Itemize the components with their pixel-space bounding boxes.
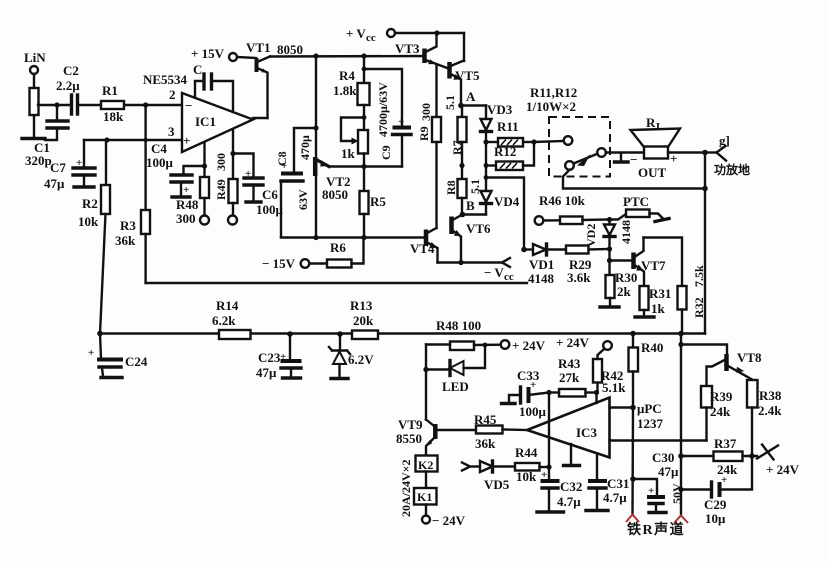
wire feedback rail y283 <box>146 282 527 284</box>
svg-text:R32: R32 <box>692 297 706 318</box>
svg-text:VD2: VD2 <box>584 224 598 247</box>
resistor R11 (wirewound) <box>483 139 488 144</box>
svg-text:36k: 36k <box>115 233 136 248</box>
svg-text:R11: R11 <box>497 119 519 134</box>
capacitor C33 100u <box>519 387 522 403</box>
svg-text:R3: R3 <box>120 218 136 233</box>
LED <box>425 345 427 420</box>
resistor R49 300 <box>232 129 234 179</box>
svg-text:R40: R40 <box>641 340 663 355</box>
svg-text:NE5534: NE5534 <box>143 72 188 87</box>
svg-text:−: − <box>185 98 192 113</box>
svg-text:R45: R45 <box>474 412 497 427</box>
svg-text:6.2k: 6.2k <box>212 313 236 328</box>
svg-text:C: C <box>193 62 202 77</box>
svg-text:铁R声道: 铁R声道 <box>627 521 685 538</box>
svg-text:cc: cc <box>366 32 376 44</box>
speaker minus tick <box>620 153 622 161</box>
capacitor C4 <box>184 166 205 174</box>
svg-text:IC3: IC3 <box>576 425 597 440</box>
svg-text:R2: R2 <box>82 196 98 211</box>
wire VT1 collector row y56 <box>270 55 424 58</box>
capacitor C9 4700u/63V <box>364 69 402 126</box>
node +24V cross <box>757 445 778 460</box>
svg-text:VD5: VD5 <box>484 477 510 492</box>
svg-text:VD3: VD3 <box>487 102 513 117</box>
svg-text:+ 24V: + 24V <box>512 338 546 353</box>
svg-text:R37: R37 <box>714 436 737 451</box>
relay K1 <box>414 488 437 505</box>
transistor VT3 <box>422 49 427 64</box>
capacitor C2 <box>70 95 73 114</box>
wire x681 column <box>680 334 682 516</box>
svg-text:R46 10k: R46 10k <box>539 193 586 208</box>
svg-text:4700μ/63V: 4700μ/63V <box>376 82 390 137</box>
capacitor C32 4.7u <box>546 464 551 469</box>
zener diode 6.2V <box>339 334 341 350</box>
capacitor C24 <box>100 334 101 359</box>
svg-text:VT4: VT4 <box>410 241 435 256</box>
svg-text:K1: K1 <box>417 490 432 504</box>
svg-text:8550: 8550 <box>396 431 422 446</box>
svg-text:R31: R31 <box>649 286 671 301</box>
resistor R3 <box>144 105 146 210</box>
resistor R38 2.4k <box>747 380 758 408</box>
svg-text:IC1: IC1 <box>195 114 216 129</box>
svg-text:+: + <box>648 485 654 497</box>
svg-text:cc: cc <box>504 271 514 283</box>
resistor R39 24k <box>701 386 712 408</box>
svg-text:5.1: 5.1 <box>468 179 482 194</box>
svg-text:20k: 20k <box>353 313 374 328</box>
node A <box>458 103 464 109</box>
wire VD3-VD4 column x486 <box>485 142 487 190</box>
svg-text:27k: 27k <box>559 370 580 385</box>
svg-text:4148: 4148 <box>528 271 555 286</box>
svg-text:A: A <box>466 89 476 104</box>
resistor R9 300 <box>435 66 437 118</box>
resistor R6 and -15V terminal <box>301 259 310 268</box>
wire branch y177 to x524 <box>486 178 524 250</box>
resistor R1 <box>101 101 124 109</box>
wire VT7 base row <box>608 249 610 261</box>
resistor R45 36k <box>438 429 477 431</box>
wire y188 from switch contact 3 <box>563 170 705 189</box>
resistor R5 <box>363 167 365 192</box>
svg-text:R4: R4 <box>339 68 355 83</box>
svg-text:+: + <box>76 157 82 169</box>
capacitor C23 47u <box>289 334 291 360</box>
svg-text:2.2μ: 2.2μ <box>56 78 80 93</box>
diode VD1 4148 <box>524 248 533 250</box>
svg-text:VT9: VT9 <box>398 417 423 432</box>
svg-text:VD4: VD4 <box>494 194 520 209</box>
svg-text:1237: 1237 <box>637 416 664 431</box>
svg-text:VT7: VT7 <box>641 258 666 273</box>
svg-text:−: − <box>630 152 637 167</box>
node +24V terminal (left) <box>501 340 510 349</box>
svg-text:5.1: 5.1 <box>443 95 457 110</box>
wire <box>425 472 427 489</box>
wire C33/R43 column <box>546 390 551 395</box>
svg-text:24k: 24k <box>710 404 731 419</box>
svg-text:C29: C29 <box>704 497 727 512</box>
svg-text:+: + <box>183 133 190 148</box>
svg-text:R: R <box>646 115 656 130</box>
svg-text:R12: R12 <box>494 144 516 159</box>
wire <box>38 104 71 106</box>
node output sense junction <box>521 247 527 253</box>
svg-text:300: 300 <box>419 103 433 121</box>
svg-text:VD1: VD1 <box>529 257 554 272</box>
svg-text:K2: K2 <box>418 458 433 472</box>
transistor VT9 8550 <box>426 420 434 426</box>
svg-text:47μ: 47μ <box>658 464 679 479</box>
svg-text:功放地: 功放地 <box>714 162 750 177</box>
svg-text:R43: R43 <box>558 356 581 371</box>
svg-text:R49: R49 <box>214 179 228 200</box>
ground <box>22 137 45 140</box>
capacitor C30 47u 50V <box>630 476 636 482</box>
red channel marks <box>626 515 639 523</box>
resistor R8 5.1 <box>458 179 467 198</box>
svg-text:4.7μ: 4.7μ <box>603 490 627 505</box>
svg-text:+ 24V: + 24V <box>766 462 800 477</box>
svg-text:20A/24V×2: 20A/24V×2 <box>399 459 413 517</box>
wire VT2 base column x316 <box>315 56 317 158</box>
svg-text:1k: 1k <box>341 146 356 161</box>
node -24V terminal <box>425 505 427 516</box>
svg-text:C24: C24 <box>125 354 148 369</box>
svg-text:C33: C33 <box>517 368 540 383</box>
capacitor C8 470u 63V <box>294 128 316 172</box>
op-amp IC1 <box>182 93 253 152</box>
svg-text:C4: C4 <box>151 141 167 156</box>
svg-text:100μ: 100μ <box>519 404 547 419</box>
op-amp IC3 <box>527 398 610 458</box>
node +24V terminal (right) <box>603 341 612 350</box>
svg-text:R11,R12: R11,R12 <box>530 85 577 100</box>
transistor VT5 <box>447 62 452 79</box>
svg-text:+ 15V: + 15V <box>191 46 225 61</box>
transistor VT7 <box>631 253 636 270</box>
svg-text:μPC: μPC <box>637 401 662 416</box>
svg-text:VT6: VT6 <box>466 221 491 236</box>
svg-text:+: + <box>245 168 251 180</box>
svg-text:LED: LED <box>442 379 469 394</box>
svg-text:7.5k: 7.5k <box>692 265 706 287</box>
svg-text:+: + <box>88 347 94 359</box>
node LiN input terminal <box>30 66 38 74</box>
svg-text:10μ: 10μ <box>705 511 726 526</box>
capacitor C29 10u <box>678 487 683 492</box>
svg-text:C30: C30 <box>652 450 674 465</box>
transistor VT1 <box>237 57 256 58</box>
switch contact circle 1 <box>534 141 564 142</box>
svg-text:R30: R30 <box>615 270 637 285</box>
svg-text:LiN: LiN <box>24 50 46 65</box>
svg-text:4148: 4148 <box>619 220 633 244</box>
svg-text:R14: R14 <box>216 298 239 313</box>
svg-text:PTC: PTC <box>623 194 649 209</box>
svg-text:10k: 10k <box>78 214 99 229</box>
svg-text:− 24V: − 24V <box>432 513 466 528</box>
svg-text:R13: R13 <box>350 298 373 313</box>
switch lever <box>574 154 598 164</box>
resistor (LED series) <box>450 342 474 351</box>
svg-text:C7: C7 <box>50 160 66 175</box>
svg-text:R8: R8 <box>444 180 458 195</box>
svg-text:47μ: 47μ <box>44 176 65 191</box>
svg-text:3.6k: 3.6k <box>567 270 591 285</box>
svg-text:320p: 320p <box>25 153 52 168</box>
svg-text:VT1: VT1 <box>246 40 271 55</box>
svg-text:36k: 36k <box>475 436 496 451</box>
wire pin3 row <box>84 139 182 141</box>
svg-text:R6: R6 <box>330 240 346 255</box>
svg-text:R5: R5 <box>370 194 386 209</box>
resistor R14 6.2k <box>219 330 251 339</box>
svg-text:300: 300 <box>176 211 196 226</box>
svg-text:C6: C6 <box>262 187 278 202</box>
diode VD2 4148 <box>608 220 610 225</box>
svg-text:g]: g] <box>719 133 730 148</box>
diode VD5 <box>480 461 493 472</box>
capacitor C31 4.7u <box>596 454 598 480</box>
resistor R37 24k <box>678 453 684 459</box>
resistor R4 <box>363 56 365 83</box>
svg-text:6.2V: 6.2V <box>348 352 374 367</box>
svg-text:R44: R44 <box>515 445 538 460</box>
svg-text:50V: 50V <box>670 483 684 504</box>
svg-text:R1: R1 <box>102 83 118 98</box>
svg-text:1.8k: 1.8k <box>333 83 357 98</box>
svg-text:100μ: 100μ <box>256 202 284 217</box>
svg-text:C2: C2 <box>63 63 79 78</box>
svg-text:3: 3 <box>168 124 175 139</box>
resistor R43 27k <box>559 389 586 397</box>
wire wiper to speaker <box>606 151 644 153</box>
resistor R29 3.6k <box>566 246 589 254</box>
input arrow <box>462 463 470 471</box>
svg-text:− 15V: − 15V <box>262 256 296 271</box>
svg-text:8050: 8050 <box>322 187 348 202</box>
svg-text:− V: − V <box>484 265 504 280</box>
svg-text:4.7μ: 4.7μ <box>557 494 581 509</box>
svg-text:+ 24V: + 24V <box>556 335 590 350</box>
wire y237 row <box>281 236 425 238</box>
capacitor C7 <box>83 140 85 167</box>
svg-text:VT3: VT3 <box>395 41 420 56</box>
svg-text:+: + <box>398 116 404 128</box>
wire -Vcc row <box>438 261 503 263</box>
capacitor C1 <box>56 105 58 120</box>
svg-text:8050: 8050 <box>277 42 303 57</box>
svg-text:10k: 10k <box>516 469 537 484</box>
dashed box R11,R12 switch <box>549 117 610 177</box>
resistor R32 7.5k <box>644 238 683 287</box>
svg-text:OUT: OUT <box>638 165 667 180</box>
capacitor C6 <box>233 154 254 178</box>
wire speaker to g1 <box>668 151 705 153</box>
resistor R44 10k <box>515 463 540 471</box>
svg-text:2.4k: 2.4k <box>758 403 782 418</box>
transistor VT2 <box>313 157 318 176</box>
wire main bottom rail y333 <box>100 332 705 334</box>
svg-text:+: + <box>541 469 547 481</box>
svg-text:47μ: 47μ <box>256 365 277 380</box>
wire <box>33 74 35 137</box>
thermistor PTC <box>610 214 627 220</box>
svg-text:+: + <box>183 184 189 196</box>
relay K2 <box>416 456 438 472</box>
svg-text:R38: R38 <box>759 388 782 403</box>
svg-text:18k: 18k <box>103 109 124 124</box>
svg-text:R9: R9 <box>417 126 431 141</box>
svg-text:+: + <box>280 351 286 363</box>
svg-text:+ V: + V <box>346 26 366 41</box>
svg-text:63V: 63V <box>296 189 310 210</box>
node g1 cross mark <box>717 146 727 161</box>
label uPC1237 <box>610 406 634 408</box>
svg-text:470μ: 470μ <box>298 135 312 160</box>
node +15V terminal <box>229 53 237 61</box>
resistor R31 1k <box>640 286 649 310</box>
potentiometer 1k <box>358 130 368 154</box>
svg-text:C32: C32 <box>560 479 582 494</box>
svg-text:+: + <box>721 474 727 486</box>
svg-text:R48 100: R48 100 <box>436 318 481 333</box>
svg-text:R39: R39 <box>710 389 733 404</box>
resistor R13 20k <box>352 331 378 340</box>
speaker RL <box>644 147 668 159</box>
resistor R42 5.1k <box>594 390 599 395</box>
wire R40 column to bottom <box>631 408 634 516</box>
wire output column x705 <box>704 153 706 334</box>
resistor R30 2k <box>608 261 610 276</box>
svg-text:R7: R7 <box>450 140 464 155</box>
resistor R48 300 <box>203 143 205 177</box>
transistor VT8 <box>681 345 727 356</box>
resistor R12 (wirewound) <box>486 164 496 166</box>
ground IC3 <box>570 444 572 465</box>
resistor R40 <box>632 334 634 348</box>
node pin2 junction <box>143 102 148 107</box>
svg-text:C8: C8 <box>275 151 289 166</box>
svg-text:L: L <box>656 121 663 133</box>
resistor input (unlabeled) <box>30 88 39 115</box>
svg-text:B: B <box>466 198 475 213</box>
diode VD4 <box>481 191 492 202</box>
wire IC3 lower output row y441 <box>610 439 707 441</box>
svg-text:5.1k: 5.1k <box>602 380 626 395</box>
transistor VT6 <box>449 217 454 235</box>
switch contact circle 3 <box>565 161 574 170</box>
svg-text:R48: R48 <box>176 197 199 212</box>
resistor R7 5.1 <box>461 106 463 118</box>
svg-text:C9: C9 <box>379 145 393 160</box>
wire y166 row <box>329 165 402 167</box>
resistor R2 <box>105 140 107 185</box>
svg-text:300: 300 <box>214 153 228 171</box>
svg-text:2: 2 <box>169 87 176 102</box>
svg-text:C23: C23 <box>258 350 281 365</box>
transistor VT4 <box>424 230 429 247</box>
svg-text:VT8: VT8 <box>737 350 762 365</box>
svg-text:100μ: 100μ <box>146 155 174 170</box>
node +Vcc terminal <box>387 29 395 37</box>
svg-text:VT5: VT5 <box>455 68 480 83</box>
svg-text:1k: 1k <box>651 301 666 316</box>
diode VD3 <box>485 106 487 119</box>
svg-text:2k: 2k <box>617 284 632 299</box>
resistor R46 10k with terminal <box>535 216 544 225</box>
switch contact circle 2 (wiper) <box>597 148 606 157</box>
svg-text:1/10W×2: 1/10W×2 <box>526 99 576 114</box>
svg-text:C31: C31 <box>607 476 629 491</box>
wire +Vcc rail <box>395 32 464 34</box>
wire IC1 output <box>253 117 268 119</box>
